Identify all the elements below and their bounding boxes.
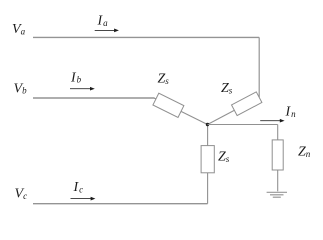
impedance Zs (phase a, diagonal) (232, 92, 262, 116)
svg-text:Vb: Vb (14, 82, 28, 97)
svg-text:Zs: Zs (218, 150, 230, 165)
star point node (206, 123, 209, 126)
wire neutral horizontal (208, 124, 278, 126)
wire Va horizontal (33, 36, 259, 38)
svg-text:Ib: Ib (70, 71, 82, 86)
svg-text:Zs: Zs (221, 81, 233, 96)
current arrow Ic (71, 197, 96, 201)
current arrow Ia (95, 29, 119, 33)
svg-text:Ic: Ic (73, 180, 84, 195)
svg-text:Ia: Ia (97, 14, 109, 29)
wire Va vertical drop (258, 37, 260, 97)
wire phase-b branch to star point (154, 98, 208, 125)
impedance Zn (neutral) (272, 140, 283, 170)
wire Vc horizontal (33, 203, 208, 205)
wire Vb horizontal (33, 97, 155, 99)
current arrow In (260, 119, 284, 123)
svg-text:Vc: Vc (15, 186, 28, 201)
wire neutral vertical (277, 125, 279, 192)
impedance Zs (phase b, diagonal) (153, 93, 184, 117)
svg-text:Zn: Zn (298, 145, 311, 160)
ground symbol (267, 192, 287, 197)
impedance Zs (phase c, vertical) (201, 146, 214, 173)
wire phase-a branch to star point (208, 97, 260, 124)
svg-text:Va: Va (12, 22, 26, 37)
svg-text:In: In (285, 104, 297, 119)
svg-text:Zs: Zs (158, 72, 170, 87)
wire phase-c branch (vertical) to star point (207, 125, 209, 204)
current arrow Ib (70, 87, 95, 91)
